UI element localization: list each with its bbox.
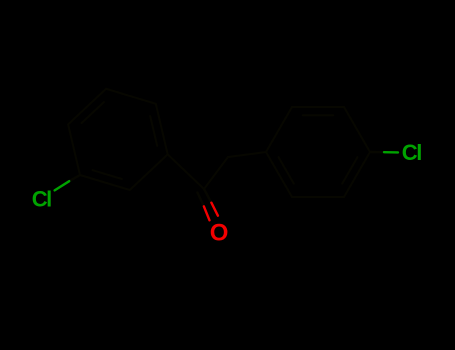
left benzene ring xyxy=(68,89,168,190)
wire: left ring outline xyxy=(68,89,168,190)
wire: left ring inner double bond 2 xyxy=(150,116,157,146)
svg-text:Cl: Cl xyxy=(402,140,421,165)
svg-text:Cl: Cl xyxy=(32,187,51,212)
svg-text:O: O xyxy=(210,220,229,247)
bond to left Cl: green half near label xyxy=(55,181,70,190)
wire: right ring inner double bond 3 xyxy=(303,114,334,116)
wire: left ring inner double bond 3 xyxy=(82,102,104,123)
bond to left Cl: dark half near ring xyxy=(69,175,80,181)
right benzene ring xyxy=(266,107,370,197)
wire: bond CH2 to right ring xyxy=(228,152,266,157)
wire: right ring inner double bond 2 xyxy=(279,157,294,184)
carbonyl C=O double bond (red halves near O) xyxy=(211,203,218,216)
bond to right Cl: dark half near ring xyxy=(370,151,384,154)
wire: left ring inner double bond 1 xyxy=(93,170,122,179)
bond to right Cl: green half near label xyxy=(384,151,398,154)
carbonyl C=O double bond (dark halves near carbon) xyxy=(204,189,211,203)
wire: right ring inner double bond 1 xyxy=(342,157,357,184)
wire: bond ring to carbonyl carbon xyxy=(168,154,204,189)
wire: bond carbonyl carbon to CH2 xyxy=(204,157,228,189)
wire: right ring outline xyxy=(266,107,370,197)
